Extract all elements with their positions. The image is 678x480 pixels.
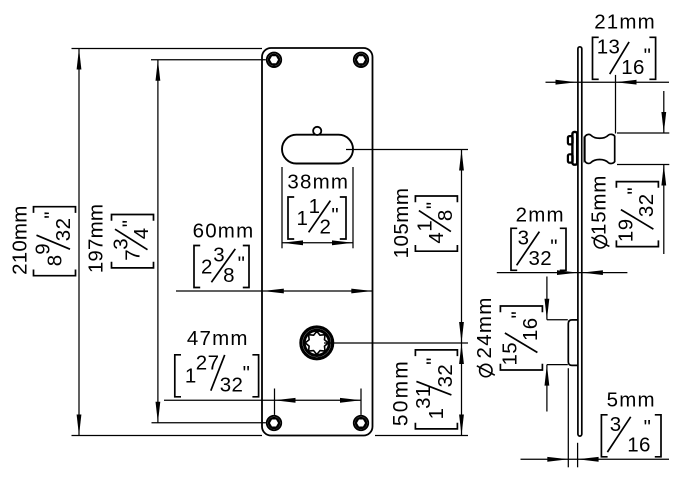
svg-text:": " — [644, 416, 652, 439]
svg-text:": " — [550, 235, 558, 258]
svg-text:2: 2 — [201, 255, 213, 278]
svg-text:47mm: 47mm — [187, 327, 249, 350]
svg-text:15mm: 15mm — [588, 175, 611, 235]
svg-text:21mm: 21mm — [594, 10, 656, 33]
svg-text:105mm: 105mm — [390, 188, 413, 259]
svg-text:4: 4 — [130, 227, 153, 239]
svg-text:": " — [422, 201, 445, 209]
svg-text:32: 32 — [434, 364, 457, 388]
svg-text:": " — [507, 311, 530, 319]
svg-text:16: 16 — [519, 317, 542, 341]
svg-text:": " — [422, 357, 445, 365]
svg-text:1: 1 — [297, 207, 309, 230]
svg-text:210mm: 210mm — [8, 206, 31, 275]
svg-text:32: 32 — [529, 247, 553, 270]
svg-text:": " — [238, 253, 246, 276]
svg-text:8: 8 — [434, 209, 457, 221]
svg-text:13: 13 — [597, 35, 621, 58]
svg-text:4: 4 — [425, 232, 448, 244]
svg-text:19: 19 — [614, 218, 637, 242]
svg-text:32: 32 — [635, 193, 658, 217]
svg-text:38mm: 38mm — [287, 171, 349, 194]
svg-text:": " — [644, 44, 652, 67]
svg-text:24mm: 24mm — [473, 296, 496, 358]
svg-text:27: 27 — [196, 351, 220, 374]
svg-text:8: 8 — [223, 264, 235, 287]
svg-text:2mm: 2mm — [516, 204, 565, 227]
svg-text:50mm: 50mm — [390, 359, 413, 426]
svg-text:16: 16 — [621, 56, 645, 79]
svg-text:32: 32 — [52, 218, 75, 242]
svg-text:9: 9 — [32, 243, 55, 255]
svg-text:5mm: 5mm — [607, 389, 656, 412]
svg-text:32: 32 — [220, 373, 244, 396]
svg-text:60mm: 60mm — [193, 220, 255, 243]
svg-text:197mm: 197mm — [84, 204, 107, 273]
svg-text:3: 3 — [610, 413, 622, 436]
svg-text:": " — [243, 362, 251, 385]
svg-text:": " — [623, 187, 646, 195]
svg-text:": " — [41, 211, 64, 219]
svg-text:31: 31 — [412, 385, 435, 409]
svg-text:": " — [119, 220, 142, 228]
svg-text:2: 2 — [320, 216, 332, 239]
svg-text:8: 8 — [43, 254, 66, 266]
svg-text:": " — [331, 204, 339, 227]
svg-text:15: 15 — [498, 342, 521, 366]
